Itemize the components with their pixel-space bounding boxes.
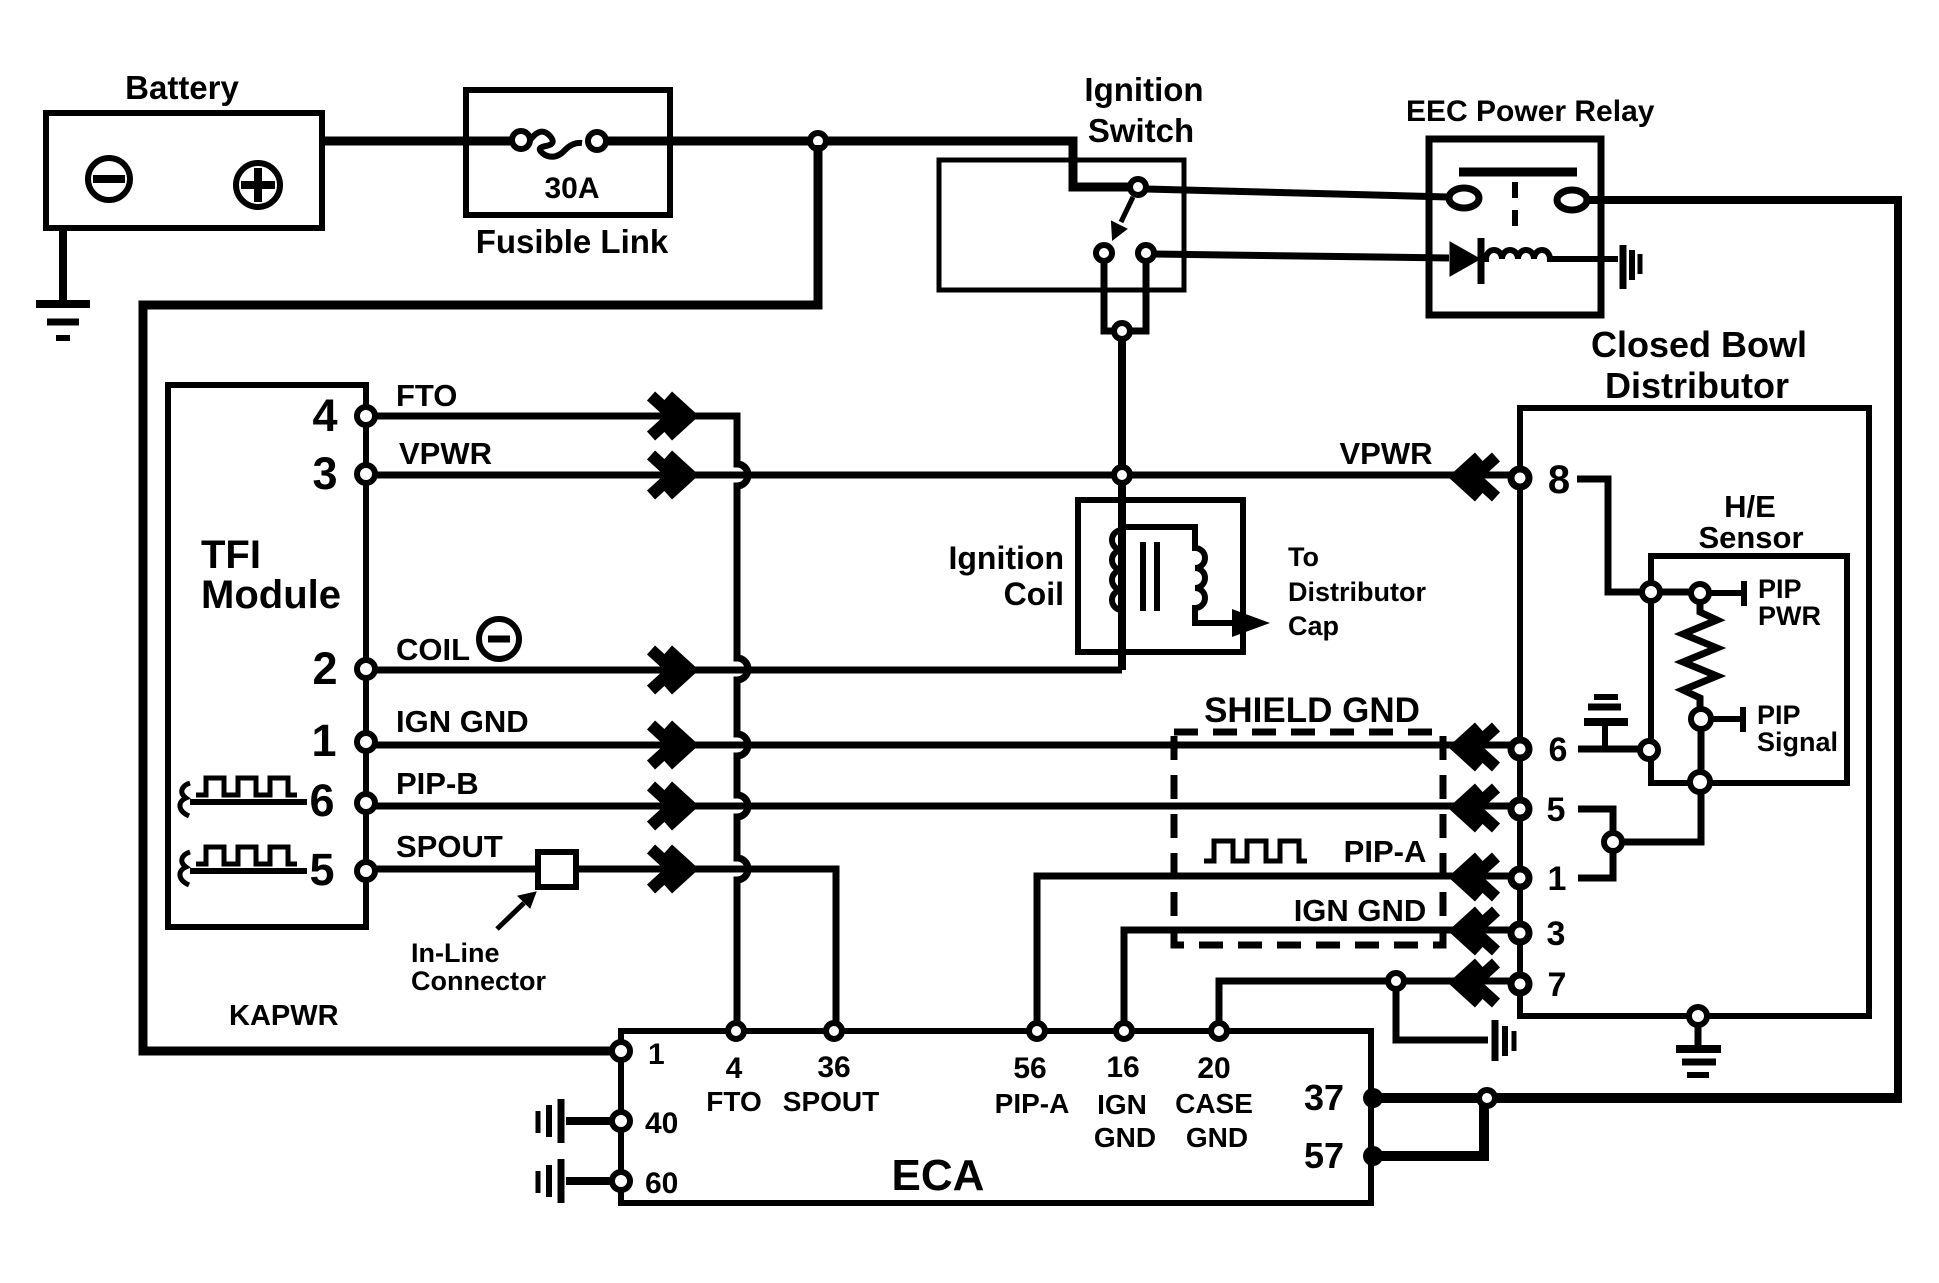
resistor R1 in sensor [1683,601,1717,711]
wire VPWR TFI to distributor [375,472,1511,479]
diode CR1 in relay [1450,238,1481,284]
svg-text:Switch: Switch [1088,112,1194,149]
svg-text:36: 36 [817,1051,850,1084]
svg-text:EEC Power Relay: EEC Power Relay [1406,95,1655,128]
arrow to in-line connector [497,892,536,929]
node PIP PWR [1691,584,1709,602]
ECA box [621,1031,1371,1203]
svg-text:8: 8 [1548,458,1570,502]
svg-text:PWR: PWR [1758,601,1821,631]
battery B1 [46,113,322,228]
wire CASE GND ECA to distributor pin 7 [1219,981,1511,1031]
node pip signal to pins 5 and 1 [1604,833,1622,851]
node ECA pin 56 PIP-A [1029,1023,1045,1039]
distributor pin 5 [1511,800,1529,818]
battery positive terminal [236,163,280,207]
svg-text:KAPWR: KAPWR [229,1000,339,1032]
squarewave glyph at TFI pin 5 [180,847,307,885]
wire pin 8 to sensor [1577,479,1692,592]
node PIP signal [1691,709,1711,729]
svg-text:1: 1 [648,1038,665,1071]
relay contact terminal right [1557,190,1587,210]
wire battery to fusible link [322,137,513,146]
relay contact bar [1459,168,1577,177]
distributor pin 6 [1511,740,1529,758]
node VPWR junction at switch drop [1114,467,1130,483]
chevron arrow on SPOUT [651,849,690,889]
switch arm arrow [1112,197,1133,239]
distributor pin 7 [1511,975,1529,993]
ECA pin 37 terminal [1363,1088,1383,1108]
svg-text:37: 37 [1304,1077,1344,1118]
EEC power relay K1 box [1429,139,1601,315]
svg-text:PIP-A: PIP-A [995,1088,1070,1119]
ground at relay coil [1623,245,1640,289]
chevron arrow at VPWR pin 8 [1457,457,1496,497]
stub PIP PWR [1709,581,1744,606]
circled minus at COIL [479,619,519,659]
svg-text:PIP: PIP [1757,700,1801,730]
svg-text:H/E: H/E [1724,489,1776,524]
node distributor case ground [1689,1007,1707,1025]
svg-text:SPOUT: SPOUT [783,1086,879,1117]
ignition switch S1 box [939,160,1184,290]
ground at ECA pin 40 [538,1099,612,1143]
svg-text:IGN GND: IGN GND [396,704,529,739]
in-line connector on SPOUT [538,852,576,887]
distributor pin 1 [1511,869,1529,887]
svg-text:IGN GND: IGN GND [1294,893,1427,928]
svg-text:2: 2 [312,643,337,694]
wire pin 6 to sensor edge [1578,746,1643,753]
wire ECA pin 37 to right bus [1376,1093,1902,1103]
arrow to distributor cap [1232,609,1270,637]
chevron arrow at pin 7 [1457,963,1496,1003]
svg-text:PIP-A: PIP-A [1344,834,1427,869]
wire IGN GND ECA to distributor pin 3 [1124,930,1511,1031]
wire SPOUT [375,869,836,1031]
coil primary wire [1118,483,1126,670]
node case gnd [1388,973,1404,989]
svg-text:4: 4 [312,390,337,441]
wire junction to ignition switch [818,141,1130,187]
ground below distributor [1676,1025,1721,1075]
TFI pin 5 [357,862,375,880]
node 37 57 join [1479,1090,1495,1106]
svg-text:SPOUT: SPOUT [396,829,503,864]
svg-text:1: 1 [1548,860,1567,898]
svg-text:VPWR: VPWR [399,436,492,471]
svg-text:20: 20 [1197,1052,1230,1085]
coil primary winding [1112,530,1122,610]
svg-text:1: 1 [311,715,336,766]
chevron arrow on COIL [651,650,690,690]
svg-text:Cap: Cap [1288,611,1339,641]
coil secondary winding [1121,527,1232,623]
svg-text:Distributor: Distributor [1605,365,1789,406]
switch terminal run right [1138,245,1154,261]
wire switch to relay contact [1146,189,1448,197]
ECA pin 1 KAPWR [612,1042,630,1060]
node pin6 shield on sensor edge [1640,741,1658,759]
svg-text:Module: Module [201,573,341,617]
svg-text:6: 6 [1549,731,1568,769]
svg-text:ECA: ECA [892,1151,985,1200]
wire IGN GND to distributor pin 6 [375,742,1511,749]
wire ECA pin 57 join [1378,1103,1484,1156]
svg-text:Signal: Signal [1757,727,1838,757]
svg-text:56: 56 [1013,1052,1046,1085]
wire fuse to junction [606,137,818,146]
chevron arrow on VPWR [651,455,690,495]
svg-text:Connector: Connector [411,966,546,996]
svg-text:5: 5 [309,844,334,895]
ECA pin 57 terminal [1363,1146,1383,1166]
TFI pin 2 [357,660,375,678]
svg-text:5: 5 [1547,791,1566,829]
svg-text:TFI: TFI [201,533,261,577]
H/E sensor box [1651,556,1847,783]
squarewave glyph PIP-A [1204,841,1307,861]
svg-text:60: 60 [645,1167,678,1200]
node ECA pin 36 SPOUT [826,1023,842,1039]
wire case gnd drop to ground [1396,989,1488,1040]
TFI pin 6 [357,794,375,812]
svg-text:FTO: FTO [396,378,457,413]
svg-text:VPWR: VPWR [1340,436,1433,471]
coil core bars [1143,542,1157,611]
fusible link F1 box [466,90,670,215]
relay actuator dashed link [1512,182,1518,230]
svg-text:Coil: Coil [1004,576,1064,612]
svg-text:GND: GND [1094,1122,1156,1153]
stub PIP Signal [1711,707,1743,732]
svg-text:FTO: FTO [706,1086,761,1117]
node switch output [1114,323,1130,339]
relay coil winding [1482,250,1618,259]
svg-text:Fusible Link: Fusible Link [476,223,669,260]
svg-text:Closed Bowl: Closed Bowl [1591,324,1807,365]
chevron arrow on FTO [651,396,690,436]
ground at case gnd wire [1495,1020,1514,1061]
wire COIL [375,667,1122,674]
chevron arrow on PIP-B [651,786,690,826]
chevron arrow at pin 5 [1457,788,1496,828]
ignition coil T1 box [1078,500,1243,652]
svg-text:COIL: COIL [396,632,470,667]
chevron arrow at pin 3 [1457,911,1496,951]
svg-text:3: 3 [1547,915,1566,953]
node sensor supply on box edge [1642,583,1660,601]
wire switch lower terminals join [1104,261,1146,331]
TFI pin 1 [357,733,375,751]
ground below battery [36,228,90,338]
svg-text:Distributor: Distributor [1288,577,1426,607]
ECA pin 60 [612,1172,630,1190]
wire relay to right bus [1588,200,1898,1098]
chevron arrow at pin 6 [1457,727,1496,767]
wire pin 1 to node [1578,850,1613,878]
battery negative terminal [88,158,130,200]
TFI pin 3 [357,465,375,483]
squarewave glyph at TFI pin 6 [180,778,307,816]
svg-text:Ignition: Ignition [1084,71,1203,108]
svg-text:16: 16 [1106,1051,1139,1084]
switch terminal battery [1130,179,1146,195]
svg-text:To: To [1288,542,1319,572]
ECA pin 40 [612,1112,630,1130]
switch terminal run left [1096,245,1112,261]
svg-text:GND: GND [1186,1122,1248,1153]
svg-text:In-Line: In-Line [411,938,500,968]
svg-text:3: 3 [312,448,337,499]
capacitor to ground at pin 6 [1584,697,1628,749]
svg-text:IGN: IGN [1097,1089,1147,1120]
svg-text:Sensor: Sensor [1698,520,1803,555]
node ECA pin 4 FTO [728,1023,744,1039]
fuse element 30A [512,131,606,157]
wire FTO with bus hops [375,416,748,1031]
node junction battery feed [810,133,826,149]
svg-text:4: 4 [726,1052,743,1085]
TFI pin 4 [357,407,375,425]
wire sensor signal to node [1613,729,1701,842]
svg-text:Battery: Battery [125,69,239,106]
wire KAPWR trunk [143,145,818,1051]
relay contact terminal left [1449,188,1479,208]
wire pin 5 to node [1578,809,1613,834]
svg-text:SHIELD GND: SHIELD GND [1204,691,1420,730]
distributor pin 3 [1511,924,1529,942]
svg-text:Ignition: Ignition [948,540,1064,576]
wire switch to ignition coil [1118,339,1126,467]
TFI module U1 box [168,385,366,927]
svg-text:7: 7 [1548,966,1567,1004]
svg-text:PIP: PIP [1758,574,1802,604]
node ECA pin 20 CASE GND [1211,1023,1227,1039]
node signal through sensor box bottom [1690,772,1710,792]
wire PIP-B to distributor pin 5 [375,803,1511,810]
svg-text:6: 6 [309,775,334,826]
wire PIP-A ECA to distributor pin 1 [1037,876,1511,1031]
shield gnd dashed box [1174,732,1443,945]
distributor pin 8 [1511,469,1529,487]
svg-text:57: 57 [1304,1135,1344,1176]
ground at ECA pin 60 [538,1159,612,1203]
svg-text:PIP-B: PIP-B [396,766,479,801]
svg-text:40: 40 [645,1107,678,1140]
chevron arrow on IGN GND [651,725,690,765]
chevron arrow at pin 1 [1457,857,1496,897]
node ECA pin 16 IGN GND [1116,1023,1132,1039]
wire switch to relay coil [1154,254,1449,258]
svg-text:30A: 30A [544,172,599,205]
svg-text:CASE: CASE [1175,1088,1253,1119]
distributor box [1520,408,1869,1016]
